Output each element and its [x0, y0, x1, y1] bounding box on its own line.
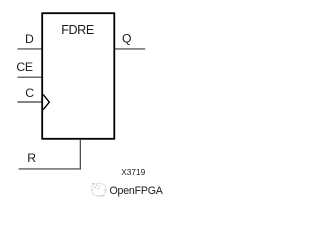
- wire C: [18, 101, 42, 103]
- flip-flop body U1 (FDRE): [42, 13, 114, 139]
- wire Q: [115, 48, 145, 50]
- svg-text:D: D: [25, 32, 34, 46]
- svg-text:CE: CE: [16, 60, 33, 74]
- wire CE: [18, 76, 42, 78]
- wire D: [18, 48, 42, 50]
- wire R horizontal: [19, 168, 81, 170]
- svg-text:FDRE: FDRE: [61, 23, 94, 37]
- svg-text:C: C: [25, 86, 34, 100]
- clock edge triangle: [43, 95, 49, 110]
- svg-text:R: R: [27, 151, 36, 165]
- watermark logo (light sketch circle): [92, 183, 107, 196]
- svg-text:X3719: X3719: [121, 167, 145, 177]
- wire R vertical to box bottom: [79, 139, 81, 169]
- svg-text:OpenFPGA: OpenFPGA: [110, 185, 164, 197]
- svg-text:Q: Q: [122, 31, 131, 45]
- watermark logo specks: [92, 183, 100, 191]
